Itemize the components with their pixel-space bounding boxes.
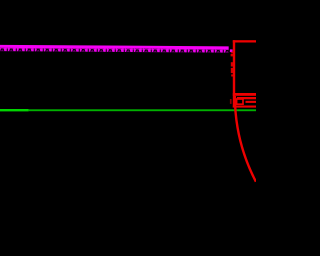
component U1 outline: bottom edge (233, 93, 256, 96)
pin line C (233, 106, 256, 108)
component U1 outline: top edge (233, 40, 256, 42)
component U1 outline: left edge (233, 40, 235, 107)
pin line B (246, 101, 257, 103)
label text tick 3 on left edge (231, 68, 233, 73)
node M-end magenta stub at red line (230, 49, 233, 52)
label tick left of line (230, 99, 232, 104)
label text tick 1 on left edge (231, 52, 233, 54)
label text tick 4 on left edge (231, 74, 233, 76)
wire W1 magenta hatched bus (top, slightly descending) (0, 45, 233, 53)
label text tick 2 on left edge (231, 62, 233, 66)
pad P1 small square (237, 99, 243, 104)
pin line A (237, 97, 256, 99)
wire W2 green net (long segment to right edge) (29, 109, 256, 111)
arc A1 large red circle segment (235, 96, 256, 182)
wire W2 green net (left bright segment) (0, 109, 29, 111)
